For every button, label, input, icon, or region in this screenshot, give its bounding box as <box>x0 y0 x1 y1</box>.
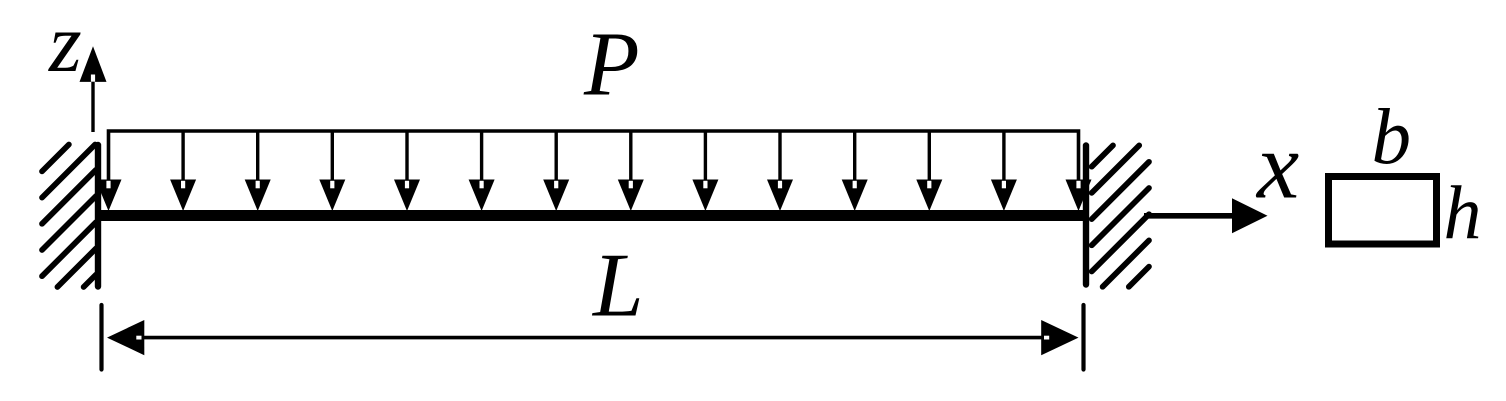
load arrow 6 <box>469 131 495 211</box>
left extension tick <box>99 305 103 370</box>
right fixed support hatching <box>1092 145 1149 286</box>
load arrow 9 <box>692 131 718 211</box>
load arrow 5 <box>394 131 420 211</box>
svg-text:h: h <box>1444 171 1482 255</box>
load arrow 11 <box>842 131 868 211</box>
load arrow 10 <box>767 131 793 211</box>
load arrow 13 <box>991 131 1017 211</box>
dimension line L <box>142 336 1044 340</box>
load arrow 12 <box>916 131 942 211</box>
load arrow 4 <box>319 131 345 211</box>
left fixed support hatching <box>42 145 96 288</box>
dimension left arrowhead <box>107 320 144 355</box>
load arrow 7 <box>543 131 569 211</box>
left support wall line <box>95 145 101 287</box>
x axis arrow <box>1144 198 1268 233</box>
load arrow 14 <box>1066 180 1092 212</box>
cross-section rectangle <box>1329 177 1437 245</box>
load arrow 8 <box>618 131 644 211</box>
beam <box>98 210 1086 221</box>
load arrow 3 <box>245 131 271 211</box>
right extension tick <box>1081 305 1085 370</box>
dimension right arrowhead <box>1041 320 1078 355</box>
svg-text:P: P <box>583 14 640 115</box>
load arrow 2 <box>170 131 196 211</box>
svg-text:x: x <box>1255 113 1299 219</box>
z axis arrow <box>80 46 107 132</box>
load arrow 1 <box>96 180 122 212</box>
svg-text:z: z <box>48 0 82 90</box>
distributed load outline (top line with end shafts) <box>109 131 1079 180</box>
svg-text:b: b <box>1372 94 1412 181</box>
svg-text:L: L <box>591 235 644 336</box>
right support wall line <box>1083 146 1089 285</box>
